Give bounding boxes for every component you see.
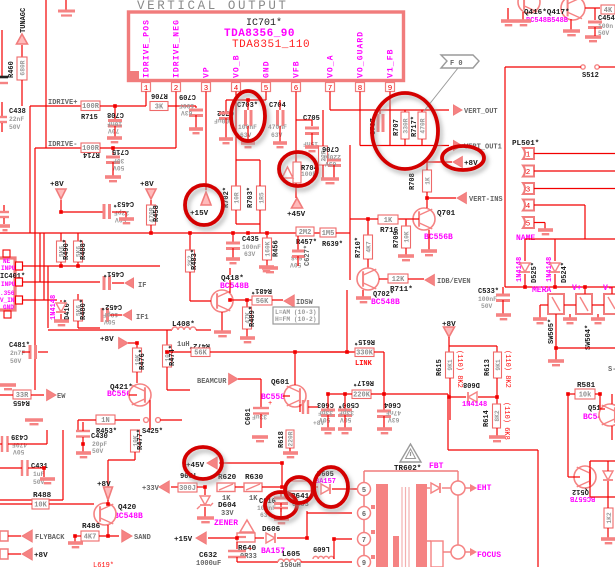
wire Q514 base jog bbox=[599, 394, 601, 409]
svg-text:S512: S512 bbox=[582, 72, 599, 80]
svg-text:33pF: 33pF bbox=[318, 409, 333, 416]
wire R614 down bbox=[496, 428, 498, 436]
wire R707 top bbox=[404, 110, 406, 112]
wire Q514 emitter down bbox=[611, 426, 613, 440]
wire sw bus bbox=[556, 347, 615, 349]
svg-text:10nF: 10nF bbox=[107, 120, 122, 127]
transistor Q601 bbox=[284, 385, 306, 407]
ground C453 bbox=[119, 219, 134, 223]
resistor R490 bbox=[57, 241, 66, 262]
wire corner down x384 bbox=[383, 352, 385, 394]
wire R476 top bbox=[136, 343, 138, 348]
wire R615 right bbox=[374, 351, 384, 353]
wire +15V to R640 bbox=[208, 537, 237, 539]
svg-text:D524*: D524* bbox=[561, 262, 569, 283]
ground misc x258 bbox=[252, 437, 268, 441]
svg-text:IDRIVE_POS: IDRIVE_POS bbox=[143, 19, 152, 78]
wire C603 stub bbox=[327, 394, 329, 409]
vertical wire x40 bbox=[39, 233, 41, 282]
wire R639 right bbox=[336, 232, 350, 234]
wire Q701 emitter down bbox=[428, 230, 430, 250]
svg-text:S-: S- bbox=[608, 366, 615, 374]
capacitor C603 bbox=[321, 410, 335, 416]
wire bbox=[594, 8, 596, 20]
ground PL501 pin5 bbox=[538, 230, 553, 234]
capacitor C533 bbox=[496, 295, 510, 301]
wire R480 down bbox=[77, 321, 79, 328]
wire C453 right bbox=[112, 211, 126, 213]
arrow IF bbox=[125, 278, 134, 288]
capacitor C709 bbox=[189, 110, 203, 116]
svg-text:VERT-INS: VERT-INS bbox=[469, 196, 503, 204]
wire R710 top bbox=[367, 219, 369, 235]
capacitor C481 bbox=[30, 345, 36, 359]
svg-text:Q416*Q417*: Q416*Q417* bbox=[524, 9, 570, 17]
ground C703 bbox=[241, 143, 255, 147]
arrow +8V q701 bbox=[453, 157, 462, 168]
wire to +8V Q420 bbox=[107, 460, 109, 487]
wire bbox=[189, 288, 191, 301]
svg-text:50V: 50V bbox=[481, 303, 493, 310]
resistor 1K2 bottom right bbox=[604, 508, 613, 528]
wire Q601 base stub bbox=[283, 395, 290, 397]
connector PL501 pin 2 bbox=[523, 166, 534, 177]
wire pin5 down bbox=[544, 223, 546, 230]
capacitor C627 bbox=[292, 251, 305, 257]
svg-text:1000uF: 1000uF bbox=[196, 560, 221, 567]
arrow EHT bbox=[465, 487, 472, 489]
transformer TR602 top wire bbox=[364, 470, 458, 472]
wire C500 stub bbox=[344, 394, 346, 409]
wire C431 left bbox=[0, 467, 22, 469]
diode D410 bbox=[56, 303, 66, 312]
resistor R615 link bbox=[355, 348, 374, 357]
svg-text:1: 1 bbox=[526, 152, 531, 160]
wire Q418 to R481 bbox=[230, 299, 252, 301]
wire y444 bbox=[10, 443, 47, 445]
resistor R711 bbox=[388, 274, 408, 283]
resistor R703 bbox=[257, 186, 266, 210]
wire pin6 down bbox=[295, 92, 297, 121]
wire C601 down bbox=[260, 414, 262, 428]
svg-text:C451*: C451* bbox=[103, 269, 124, 277]
wire Q416 emitter bbox=[522, 12, 524, 20]
ground top R481 bbox=[262, 268, 278, 272]
wire Q512 collector up bbox=[589, 461, 591, 466]
svg-text:R474*: R474* bbox=[169, 345, 177, 366]
wire C435 down bbox=[232, 248, 234, 258]
wire R581 right bbox=[595, 393, 600, 395]
svg-text:R639*: R639* bbox=[322, 241, 343, 249]
FOCUS circle bbox=[451, 545, 465, 559]
wire Q701 collector bbox=[426, 198, 428, 208]
svg-text:1R5: 1R5 bbox=[259, 192, 266, 204]
svg-text:100F: 100F bbox=[179, 102, 194, 109]
resistor R474 bbox=[163, 345, 172, 367]
wire to L605 bbox=[237, 561, 278, 563]
wire R477 down bbox=[134, 452, 136, 460]
svg-text:3K: 3K bbox=[155, 103, 164, 111]
wire bbox=[607, 481, 609, 497]
wire up x307 bbox=[306, 511, 308, 538]
wire V- to SW right bbox=[611, 287, 613, 294]
capacitor C430 bbox=[76, 430, 90, 432]
wire caps top bus bbox=[226, 99, 266, 101]
power +8V triangle Q420 bbox=[104, 487, 113, 500]
wire bbox=[568, 476, 580, 478]
wire +8V down bbox=[60, 200, 62, 212]
svg-text:D608: D608 bbox=[463, 380, 480, 388]
wire pin4 down to R702 rail bbox=[235, 100, 237, 160]
svg-text:C604: C604 bbox=[384, 400, 401, 408]
capacitor C500 bbox=[338, 410, 352, 416]
wire BEAMCUR bbox=[238, 378, 261, 380]
svg-text:GND: GND bbox=[263, 60, 272, 78]
svg-text:R614: R614 bbox=[483, 410, 491, 427]
wire +8V to R476 bbox=[128, 342, 137, 344]
wire pin5 down bbox=[265, 92, 267, 101]
capacitor C431 bbox=[21, 460, 23, 476]
wire Q421 base stub bbox=[129, 394, 137, 396]
wire R711 right bbox=[408, 278, 424, 280]
ground C705 bbox=[305, 147, 319, 151]
svg-text:5: 5 bbox=[362, 487, 366, 495]
annotation circle +8V bbox=[445, 150, 487, 174]
arrow TUNAGC up bbox=[17, 34, 28, 44]
resistor R456 bbox=[263, 238, 272, 260]
wire R618 down bbox=[289, 448, 291, 452]
diode D606 bbox=[266, 533, 275, 543]
transformer winding bar primary bbox=[376, 484, 388, 567]
IC701 pin 8 bbox=[356, 83, 365, 92]
wire C430 down bbox=[82, 437, 84, 452]
transistor Q512 bbox=[574, 466, 596, 488]
svg-text:150uH: 150uH bbox=[280, 562, 301, 567]
ground R709 bbox=[398, 256, 414, 260]
power +8V triangle left bbox=[56, 189, 66, 199]
svg-text:C435: C435 bbox=[242, 236, 259, 244]
wire C603 down bbox=[327, 415, 329, 428]
wire Q418 emitter down bbox=[221, 312, 223, 331]
svg-text:C706: C706 bbox=[322, 144, 339, 152]
wire to L408 bbox=[48, 329, 172, 331]
vertical wire x48 bbox=[47, 266, 49, 328]
diode D604 zener bbox=[200, 496, 210, 505]
svg-text:L605: L605 bbox=[282, 551, 301, 559]
wire Q416 ground stub bbox=[507, 8, 509, 20]
jumper S512 bbox=[581, 65, 585, 69]
ground top bbox=[65, 0, 67, 11]
wire R618 top bbox=[289, 430, 291, 432]
capacitor C708 bbox=[108, 121, 122, 127]
wire R477 corner bbox=[108, 459, 135, 461]
wire R489 down bbox=[246, 329, 248, 337]
svg-text:C453*: C453* bbox=[113, 199, 134, 207]
resistor R489 bbox=[243, 307, 252, 329]
resistor R706 bbox=[150, 102, 168, 111]
focus divider box bbox=[431, 541, 443, 567]
capacitor left edge y78 bbox=[0, 76, 8, 79]
wire C430 up bbox=[82, 422, 84, 431]
wire bus y352 left segment bbox=[210, 351, 355, 353]
wire Q417 emitter bbox=[570, 19, 572, 30]
diode D512 bbox=[603, 471, 613, 480]
wire sw link 1 bbox=[540, 304, 548, 306]
svg-text:1N: 1N bbox=[101, 417, 109, 425]
wire C481 right bbox=[38, 351, 48, 353]
wire secondary top bbox=[427, 487, 430, 489]
wire down x261 bbox=[260, 379, 262, 408]
ground SW 2 bbox=[563, 319, 577, 323]
svg-text:33uF: 33uF bbox=[252, 413, 267, 420]
wire Q702 to R711 bbox=[379, 278, 388, 280]
power +15V triangle bbox=[201, 192, 211, 205]
wire bbox=[600, 408, 605, 410]
wire Q601 collector up bbox=[294, 352, 296, 385]
arrow +15V bbox=[196, 532, 206, 544]
resistor R630 box bbox=[244, 483, 262, 492]
wire pin2 down bbox=[175, 92, 177, 149]
ground left edge bbox=[0, 226, 10, 230]
resistor R705 bbox=[319, 146, 328, 165]
svg-text:.356: .356 bbox=[0, 290, 15, 297]
svg-text:1K: 1K bbox=[384, 217, 393, 225]
wire R708 to +8V bbox=[427, 161, 452, 163]
svg-text:R618: R618 bbox=[278, 431, 286, 448]
switch box right partial bbox=[604, 294, 615, 314]
resistor FLYBACK stub box bbox=[0, 531, 8, 541]
wire R488 left bbox=[0, 503, 32, 505]
wire Q420 emitter down bbox=[107, 525, 109, 536]
diode EHT bbox=[431, 483, 440, 493]
IC701 pin 4 bbox=[232, 83, 241, 92]
wire D606 right bbox=[277, 537, 307, 539]
wire bbox=[235, 486, 244, 488]
wire C709 stub bbox=[195, 106, 197, 108]
arrow +8V bottom bbox=[22, 548, 32, 560]
svg-text:TUNAGC: TUNAGC bbox=[20, 8, 28, 33]
svg-text:50V: 50V bbox=[290, 261, 302, 268]
capacitor C451 bbox=[104, 276, 110, 290]
wire bottom right top edge bbox=[590, 460, 615, 462]
wire down x78 bbox=[77, 420, 79, 430]
svg-text:2M2: 2M2 bbox=[299, 229, 312, 237]
diode D525 bbox=[520, 263, 530, 272]
wire bbox=[594, 27, 596, 36]
wire to VERT-INS bbox=[427, 197, 456, 199]
svg-text:1N4148: 1N4148 bbox=[50, 295, 58, 320]
svg-text:+8V: +8V bbox=[313, 420, 325, 427]
svg-text:1M5: 1M5 bbox=[322, 230, 335, 238]
svg-text:R490*: R490* bbox=[63, 239, 71, 260]
svg-text:VP: VP bbox=[203, 66, 212, 78]
svg-text:D604: D604 bbox=[218, 502, 237, 510]
resistor R488a bbox=[74, 241, 83, 262]
warning triangle TR602 bbox=[400, 444, 421, 462]
svg-text:10K: 10K bbox=[34, 501, 47, 509]
svg-text:TDA8351_110: TDA8351_110 bbox=[232, 39, 310, 51]
svg-text:BC557B: BC557B bbox=[569, 494, 595, 502]
wire R717 bottom bbox=[421, 139, 423, 146]
svg-text:C430: C430 bbox=[91, 433, 108, 441]
svg-text:EHT: EHT bbox=[477, 484, 492, 493]
wire D525 up bbox=[524, 239, 526, 261]
svg-text:Q512: Q512 bbox=[572, 487, 589, 495]
capacitor C632 bbox=[228, 550, 246, 553]
wire bus y282 bbox=[22, 281, 100, 283]
wire Q702 emitter bbox=[362, 290, 364, 297]
wire bus into R617 bbox=[328, 393, 352, 395]
svg-text:50V: 50V bbox=[598, 30, 610, 37]
capacitor C706 bbox=[328, 160, 341, 166]
IC701 pin 5 bbox=[262, 83, 271, 92]
wire MERA bus bbox=[505, 286, 615, 288]
wire C702 down bbox=[225, 118, 227, 138]
svg-text:C601: C601 bbox=[245, 408, 253, 425]
capacitor C616 lower plate bbox=[274, 507, 288, 509]
wire C715 down bbox=[112, 162, 114, 176]
svg-text:D606: D606 bbox=[262, 526, 281, 534]
IC701 pin 2 bbox=[172, 83, 181, 92]
wire R486 left bbox=[75, 535, 81, 537]
wire D604 stub bbox=[204, 487, 206, 495]
capacitor C616 bbox=[274, 498, 288, 504]
svg-text:(110) 8K2: (110) 8K2 bbox=[503, 350, 511, 388]
wire to C715 bbox=[112, 148, 114, 155]
ground Q416 emitter bbox=[516, 21, 531, 25]
wire R483 top bbox=[189, 233, 191, 250]
wire beam bus into R615 bbox=[320, 351, 350, 353]
svg-text:10K: 10K bbox=[404, 231, 411, 243]
horizontal bus y233 bbox=[0, 232, 320, 234]
resistor R480 bbox=[74, 300, 83, 321]
wire R460 to IDRIVE+ bbox=[21, 80, 23, 106]
IC701 pin 1 bbox=[142, 83, 151, 92]
svg-text:ZENER: ZENER bbox=[214, 519, 238, 528]
svg-text:9K1: 9K1 bbox=[495, 359, 502, 371]
wire bottom right left edge bbox=[589, 461, 591, 497]
svg-text:R460: R460 bbox=[8, 61, 16, 78]
ground C604 bbox=[377, 429, 392, 433]
svg-text:2n7F: 2n7F bbox=[10, 350, 25, 357]
svg-text:C439: C439 bbox=[11, 432, 28, 440]
wire C604 stub bbox=[383, 394, 385, 410]
svg-text:C704: C704 bbox=[269, 102, 286, 110]
wire R702 bottom bbox=[235, 210, 237, 224]
svg-text:Q701: Q701 bbox=[437, 210, 456, 218]
wire +8V branch bbox=[449, 345, 497, 347]
svg-text:F 0: F 0 bbox=[450, 60, 463, 68]
svg-text:63V: 63V bbox=[271, 132, 283, 139]
wire bbox=[607, 461, 609, 471]
wire R456 stub bbox=[266, 233, 268, 238]
svg-text:SW505*: SW505* bbox=[548, 319, 556, 344]
ground R614 bbox=[489, 437, 505, 441]
svg-text:Q420: Q420 bbox=[118, 504, 137, 512]
wire pin1 down bbox=[145, 92, 147, 107]
op-amp IC401 block outline (partial) bbox=[0, 258, 15, 310]
transformer pin 7 circle bbox=[358, 533, 371, 546]
svg-text:R715: R715 bbox=[81, 114, 98, 122]
ground R456 bbox=[259, 267, 274, 271]
svg-text:50V: 50V bbox=[13, 448, 25, 455]
wire to C627 bbox=[297, 236, 299, 250]
transistor Q420 bbox=[94, 503, 116, 525]
IC701 pin 7 bbox=[326, 83, 335, 92]
wire pin9 down bbox=[389, 92, 391, 146]
svg-text:9K1: 9K1 bbox=[447, 359, 454, 371]
wire C632 down bbox=[236, 557, 238, 562]
wire box top edge right of S512 bbox=[599, 66, 615, 68]
wire +45V rail bbox=[219, 462, 282, 464]
svg-text:63V: 63V bbox=[325, 160, 337, 167]
connector PL501 pin 3 bbox=[523, 183, 534, 194]
resistor R613 bbox=[494, 352, 502, 378]
resistor 4K7 top right bbox=[601, 5, 615, 14]
resistor R715 bbox=[81, 101, 100, 111]
svg-text:63V: 63V bbox=[181, 109, 193, 116]
power +45V triangle bbox=[292, 198, 303, 208]
wire R703 top bbox=[259, 160, 261, 186]
svg-text:70V: 70V bbox=[108, 127, 120, 134]
svg-text:100nF: 100nF bbox=[242, 244, 261, 251]
transistor Q421 bbox=[129, 384, 151, 406]
svg-text:R707: R707 bbox=[393, 119, 401, 136]
transistor Q702 bbox=[357, 268, 379, 290]
ground C704 bbox=[273, 143, 287, 147]
resistor R639 bbox=[320, 228, 336, 237]
ground C715 bbox=[105, 177, 121, 181]
svg-text:1uH: 1uH bbox=[177, 341, 190, 349]
svg-text:5: 5 bbox=[526, 221, 531, 229]
leader line from flag bbox=[424, 68, 458, 111]
svg-text:9: 9 bbox=[362, 560, 366, 567]
svg-text:LINK: LINK bbox=[355, 360, 373, 368]
wire Q514 collector up bbox=[611, 394, 613, 404]
svg-text:6: 6 bbox=[362, 511, 366, 519]
wire IDRIVE- right bbox=[100, 147, 176, 149]
resistor R615v bbox=[446, 352, 454, 378]
wire C706 down bbox=[333, 165, 335, 178]
svg-text:(110) 6K8: (110) 6K8 bbox=[502, 402, 510, 440]
wire pin6 to R704 bbox=[295, 120, 297, 162]
resistor R704 bbox=[293, 162, 301, 183]
resistor R710 bbox=[364, 235, 373, 259]
capacitor C438 plates bbox=[1, 102, 3, 116]
resistor R472 bbox=[191, 348, 210, 357]
capacitor C705 bbox=[305, 128, 319, 134]
svg-text:R481*: R481* bbox=[251, 286, 272, 294]
ground SW 1 bbox=[533, 319, 547, 323]
transformer pin 6 circle bbox=[358, 507, 371, 520]
wire to ground R481 bbox=[229, 268, 231, 275]
ground SW 3 bbox=[591, 319, 605, 323]
svg-text:(110) 8K2: (110) 8K2 bbox=[455, 350, 463, 388]
capacitor C703 bbox=[246, 110, 252, 126]
wire R717 top bbox=[421, 110, 423, 112]
svg-text:R615: R615 bbox=[436, 359, 444, 376]
wire Q417 to C454 bbox=[585, 7, 600, 9]
wire bbox=[8, 443, 10, 445]
svg-text:L609: L609 bbox=[313, 544, 330, 552]
ground mid left bbox=[25, 420, 43, 424]
svg-text:R476*: R476* bbox=[139, 349, 147, 370]
IC401 pin box bbox=[16, 296, 23, 304]
wire y500 bbox=[0, 499, 63, 501]
svg-text:FOCUS: FOCUS bbox=[477, 551, 501, 560]
wire D410 top bbox=[60, 300, 62, 302]
capacitor C602 bbox=[302, 400, 304, 414]
